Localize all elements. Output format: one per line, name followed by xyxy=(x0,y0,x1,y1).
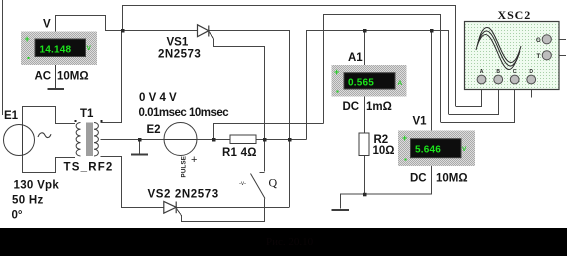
svg-text:0.565: 0.565 xyxy=(348,78,374,89)
svg-text:+: + xyxy=(334,67,339,77)
svg-text:Рис. 20.10: Рис. 20.10 xyxy=(266,236,314,248)
svg-text:14.148: 14.148 xyxy=(40,45,72,56)
svg-text:R1 4Ω: R1 4Ω xyxy=(222,147,257,159)
svg-text:E1: E1 xyxy=(4,110,19,122)
svg-text:10MΩ: 10MΩ xyxy=(57,71,89,83)
svg-text:5.646: 5.646 xyxy=(415,145,441,156)
svg-text:+: + xyxy=(25,34,30,44)
svg-text:V: V xyxy=(43,19,51,31)
svg-text:+: + xyxy=(191,154,197,166)
svg-text:A: A xyxy=(398,80,403,87)
svg-text:0.01msec 10msec: 0.01msec 10msec xyxy=(139,107,230,119)
svg-text:C: C xyxy=(513,69,517,75)
svg-text:E2: E2 xyxy=(147,124,161,136)
svg-text:Q: Q xyxy=(269,176,278,190)
svg-text:10MΩ: 10MΩ xyxy=(436,173,468,185)
svg-text:130 Vpk: 130 Vpk xyxy=(14,180,60,192)
svg-text:2N2573: 2N2573 xyxy=(158,49,201,61)
svg-text:TS_RF2: TS_RF2 xyxy=(64,162,114,174)
svg-text:V: V xyxy=(87,45,92,52)
svg-text:D: D xyxy=(529,69,533,75)
svg-text:PULSE: PULSE xyxy=(181,156,188,178)
svg-text:0 V 4 V: 0 V 4 V xyxy=(139,92,177,104)
svg-text:VS2 2N2573: VS2 2N2573 xyxy=(148,189,219,201)
svg-text:50 Hz: 50 Hz xyxy=(12,195,44,207)
svg-text:AC: AC xyxy=(35,71,52,83)
svg-text:DC: DC xyxy=(343,101,360,113)
svg-text:B: B xyxy=(496,69,500,75)
svg-text:G: G xyxy=(536,38,541,44)
svg-text:VS1: VS1 xyxy=(167,37,189,49)
svg-text:1mΩ: 1mΩ xyxy=(366,101,392,113)
svg-text:DC: DC xyxy=(410,173,427,185)
svg-text:-v-: -v- xyxy=(239,181,246,187)
svg-text:T: T xyxy=(537,54,541,60)
svg-text:V: V xyxy=(462,146,467,153)
svg-text:10Ω: 10Ω xyxy=(373,145,395,157)
svg-text:+: + xyxy=(402,133,407,143)
svg-text:0°: 0° xyxy=(12,210,23,222)
svg-text:A: A xyxy=(480,69,484,75)
svg-text:XSC2: XSC2 xyxy=(498,8,532,22)
svg-text:A1: A1 xyxy=(348,52,363,64)
svg-text:T1: T1 xyxy=(80,108,94,120)
svg-text:V1: V1 xyxy=(413,116,428,128)
